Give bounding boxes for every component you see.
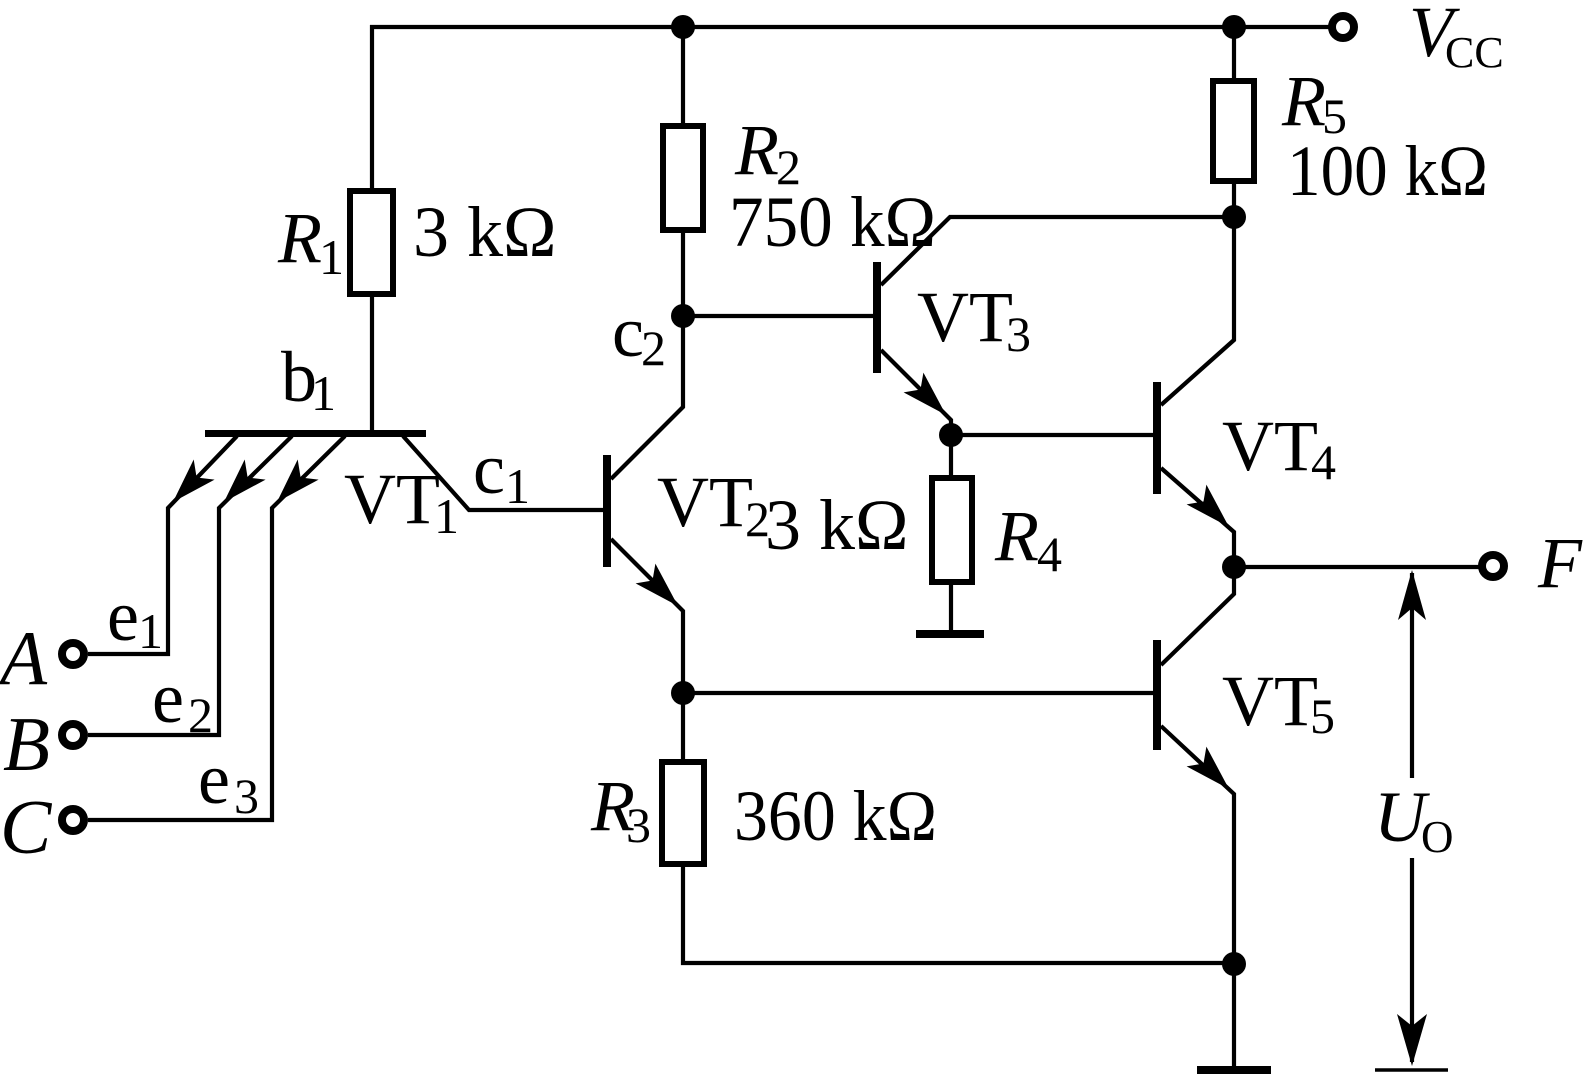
- node VT2 emitter / R3 / VT5 base junction: [671, 681, 695, 705]
- label R3 value 360 kOhm: [734, 776, 937, 856]
- wire VCC rail to R5: [1232, 27, 1236, 81]
- node VCC rail / R5 branch junction: [1222, 15, 1246, 39]
- svg-text:5: 5: [1310, 688, 1335, 744]
- label VT4: [1222, 406, 1336, 490]
- svg-text:3 kΩ: 3 kΩ: [413, 192, 557, 272]
- wire R4 to ground: [949, 581, 953, 631]
- wire R2 to VCC rail: [681, 27, 685, 127]
- wire node c2 to VT3 base: [683, 314, 873, 318]
- svg-text:R: R: [1281, 61, 1326, 141]
- svg-text:1: 1: [138, 603, 163, 659]
- terminal VCC: [1332, 16, 1354, 38]
- transistor VT5 base bar: [1153, 640, 1161, 750]
- label R3: [590, 766, 651, 853]
- svg-text:2: 2: [188, 687, 213, 743]
- label e2: [152, 658, 213, 743]
- arrow VT5 emitter: [1187, 747, 1229, 789]
- wire VT1 emitter e1: [88, 436, 237, 654]
- svg-text:VT: VT: [657, 462, 753, 542]
- ground under R4: [916, 630, 984, 638]
- node VT3 emitter / R4 / VT4 base junction: [939, 423, 963, 447]
- label b1 base node: [281, 337, 336, 421]
- arrow Uo lower segment: [1410, 858, 1414, 1062]
- wire VT5 emitter: [1161, 726, 1234, 1067]
- label VT2: [657, 462, 770, 547]
- wire VT4 collector: [1161, 217, 1234, 405]
- svg-text:e: e: [107, 576, 139, 656]
- label VT1: [344, 459, 459, 544]
- label VT5: [1222, 661, 1335, 744]
- wire VT5 base: [683, 691, 1153, 695]
- wire VT4 emitter: [1161, 468, 1234, 567]
- label c1: [473, 429, 530, 514]
- label R4 value 3 kOhm: [765, 485, 909, 565]
- wire VT5 collector: [1161, 567, 1234, 665]
- svg-text:VT: VT: [1222, 661, 1318, 741]
- wire VT2 emitter: [611, 539, 683, 693]
- svg-text:4: 4: [1311, 434, 1336, 490]
- svg-text:1: 1: [505, 458, 530, 514]
- label F: [1537, 523, 1583, 603]
- wire VT3 emitter node to VT4 base: [951, 433, 1153, 437]
- label R1: [277, 198, 344, 285]
- label Uo: [1374, 777, 1454, 862]
- wire VT1 emitter e3: [88, 436, 345, 820]
- resistor R4: [932, 478, 972, 582]
- ground reference line under Uo arrow: [1375, 1068, 1448, 1072]
- node VT5 emitter / bottom wire junction: [1222, 952, 1246, 976]
- label VCC: [1409, 0, 1504, 77]
- svg-text:3: 3: [626, 797, 651, 853]
- svg-text:VT: VT: [1222, 406, 1318, 486]
- label R5: [1281, 61, 1347, 144]
- arrow Uo upper segment: [1410, 573, 1414, 778]
- wire output node to terminal F: [1234, 565, 1480, 569]
- resistor R5: [1213, 81, 1254, 181]
- svg-text:F: F: [1537, 523, 1583, 603]
- svg-text:100 kΩ: 100 kΩ: [1287, 131, 1488, 211]
- wire VCC rail: [370, 25, 1329, 29]
- arrow VT4 emitter: [1187, 485, 1229, 527]
- transistor VT3 base bar: [873, 262, 881, 373]
- label B: [3, 701, 50, 787]
- label C: [0, 784, 53, 870]
- svg-text:1: 1: [319, 229, 344, 285]
- label c2: [612, 292, 666, 376]
- arrow VT2 emitter: [636, 564, 678, 606]
- node output F junction: [1222, 555, 1246, 579]
- transistor VT4 base bar: [1153, 382, 1161, 494]
- arrowhead Uo down: [1397, 1014, 1427, 1066]
- svg-text:VT: VT: [344, 459, 440, 539]
- arrow VT1 emitter e1: [173, 460, 215, 503]
- label R4: [994, 496, 1062, 582]
- svg-text:1: 1: [311, 365, 336, 421]
- arrowhead Uo up: [1398, 570, 1426, 620]
- resistor R2: [663, 126, 703, 230]
- svg-text:c: c: [473, 429, 505, 509]
- wire junction to R3: [681, 691, 685, 762]
- svg-text:750 kΩ: 750 kΩ: [729, 182, 936, 262]
- wire VT2 collector to node c2: [611, 310, 683, 479]
- svg-text:3: 3: [234, 768, 259, 824]
- ground under VT5: [1197, 1066, 1271, 1074]
- label A: [0, 615, 48, 701]
- svg-text:R: R: [734, 110, 779, 190]
- wire VT3 emitter: [881, 350, 951, 478]
- svg-text:O: O: [1421, 812, 1454, 862]
- svg-text:c: c: [612, 292, 644, 372]
- svg-text:4: 4: [1037, 526, 1062, 582]
- svg-text:C: C: [0, 784, 53, 870]
- wire VCC rail to R1: [370, 25, 374, 191]
- resistor R3: [662, 762, 704, 864]
- resistor R1: [350, 191, 393, 294]
- transistor VT2 base bar: [603, 455, 611, 567]
- svg-text:CC: CC: [1445, 28, 1504, 77]
- node VCC rail / R2 branch junction: [671, 15, 695, 39]
- wire R3 to bottom node: [683, 864, 1234, 963]
- terminal B: [62, 724, 84, 746]
- svg-text:3: 3: [1006, 306, 1031, 362]
- svg-text:A: A: [0, 615, 48, 701]
- svg-text:VT: VT: [917, 277, 1013, 357]
- terminal F: [1482, 555, 1504, 577]
- svg-text:R: R: [994, 496, 1039, 576]
- wire R5 to collector node: [1232, 183, 1236, 217]
- label R2 value 750 kOhm: [729, 182, 936, 262]
- terminal C: [62, 809, 84, 831]
- wire node c2 to R2: [681, 230, 685, 316]
- label R1 value 3 kOhm: [413, 192, 557, 272]
- svg-text:2: 2: [641, 320, 666, 376]
- wire VT1 emitter e2: [88, 436, 292, 735]
- label R5 value 100 kOhm: [1287, 131, 1488, 211]
- label VT3: [917, 277, 1031, 362]
- arrow VT3 emitter: [904, 373, 946, 415]
- wire R1 to VT1 base: [370, 294, 374, 432]
- svg-text:B: B: [3, 701, 50, 787]
- label e3: [198, 739, 259, 824]
- transistor VT1 base bar: [205, 430, 426, 437]
- arrow VT1 emitter e3: [277, 460, 319, 503]
- label R2: [734, 110, 801, 195]
- svg-text:R: R: [277, 198, 322, 278]
- terminal A: [62, 643, 84, 665]
- wire VT3 collector to node: [881, 217, 1234, 285]
- svg-text:3 kΩ: 3 kΩ: [765, 485, 909, 565]
- arrow VT1 emitter e2: [224, 460, 266, 503]
- svg-text:e: e: [152, 658, 184, 738]
- node R5 / VT3 collector / VT4 collector junction: [1222, 205, 1246, 229]
- wire VT1 collector c1 to VT2 base: [403, 436, 603, 510]
- node c2 junction: [671, 304, 695, 328]
- label e1: [107, 576, 163, 659]
- svg-text:e: e: [198, 739, 230, 819]
- svg-text:360 kΩ: 360 kΩ: [734, 776, 937, 856]
